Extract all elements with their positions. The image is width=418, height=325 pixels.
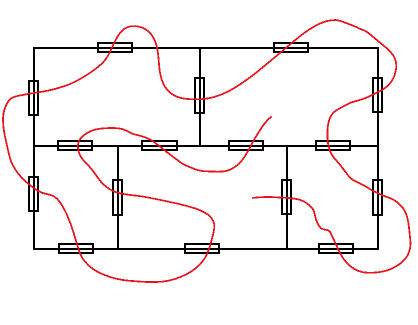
resistor R15 bottom bus 2 [185, 244, 219, 253]
resistor R5 on right edge upper [373, 78, 382, 112]
resistor R6 middle bus 1 [58, 141, 92, 150]
resistor R10 on left edge lower [29, 177, 38, 211]
wire bottom bus [33, 248, 378, 250]
resistor R1 top-left on top bus [98, 43, 132, 52]
wire bottom branch B2 [286, 146, 288, 249]
wire top bus [33, 47, 378, 49]
wire right edge [377, 47, 379, 250]
resistor R9 middle bus 4 [316, 141, 350, 150]
wire bottom branch B1 [117, 146, 119, 249]
resistor R3 on left edge upper [29, 81, 38, 115]
wire middle bus [33, 145, 378, 147]
wire top middle branch [199, 47, 201, 146]
resistor R7 middle bus 2 [142, 141, 177, 150]
resistor R2 top-right on top bus [274, 43, 308, 52]
resistor R8 middle bus 3 [229, 141, 263, 150]
freehand red loop trace [3, 20, 410, 282]
resistor R13 on right edge lower [373, 180, 382, 215]
resistor R11 on bottom branch B1 [113, 180, 122, 215]
resistor R4 on top middle branch [195, 78, 204, 113]
resistor R12 on bottom branch B2 [282, 180, 291, 214]
wire left edge [33, 47, 35, 250]
resistor R14 bottom bus 1 [59, 244, 93, 253]
resistor R16 bottom bus 3 [319, 244, 353, 253]
